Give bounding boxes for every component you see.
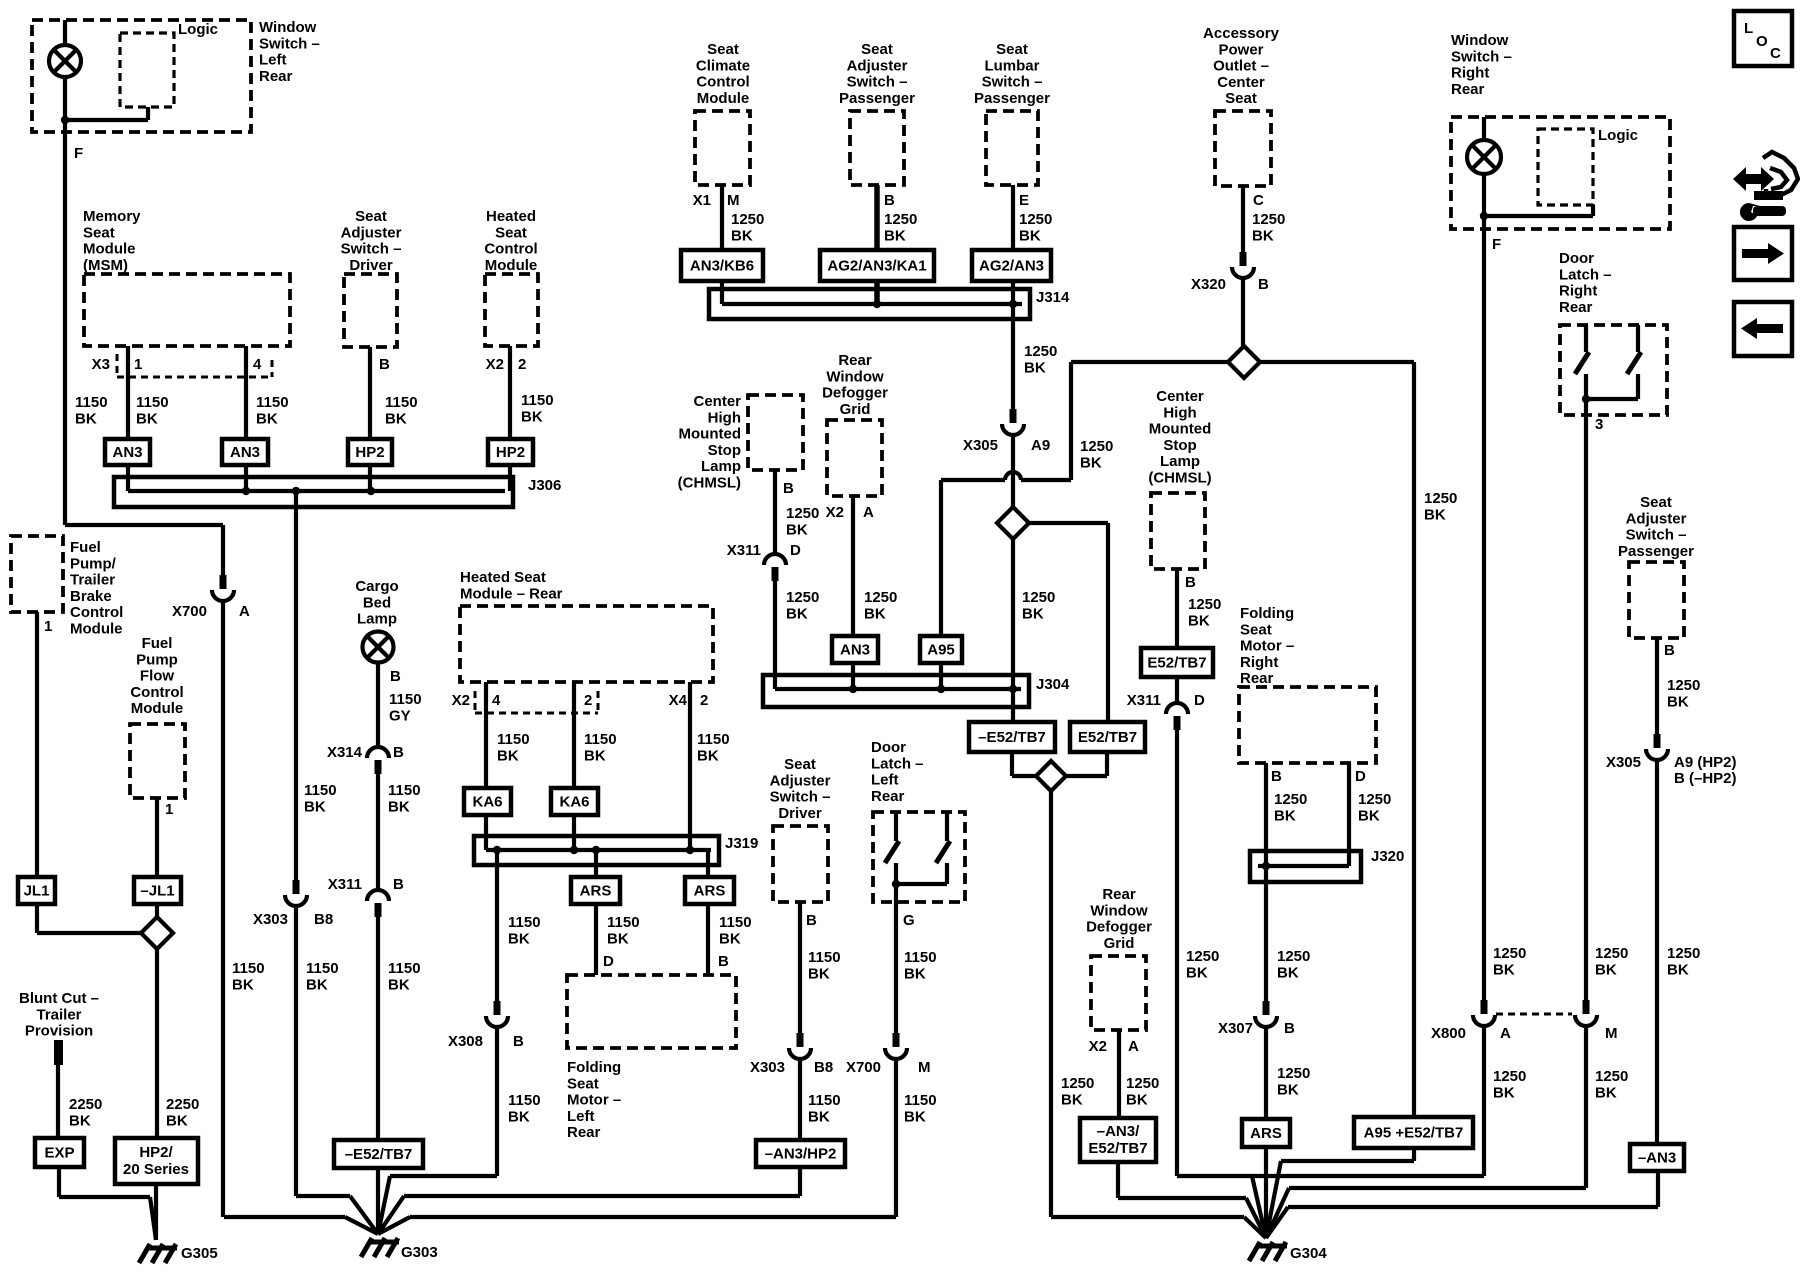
module box: Door Latch - Right Rear <box>1560 325 1667 415</box>
svg-text:BK: BK <box>256 410 278 427</box>
splice diamond (E52/TB7 join) <box>1036 761 1066 791</box>
svg-text:EXP: EXP <box>44 1145 74 1162</box>
svg-text:Motor –: Motor – <box>1240 638 1294 655</box>
svg-text:B: B <box>884 192 895 209</box>
wire: lamp feed inside window switch left rear <box>63 20 67 132</box>
svg-text:A: A <box>239 603 250 620</box>
connector X314 cavity B <box>367 747 389 774</box>
wire: horizontal to G303 <box>404 1194 800 1198</box>
svg-text:C: C <box>1253 192 1264 209</box>
svg-text:–E52/TB7: –E52/TB7 <box>978 729 1046 746</box>
wire: slant into G303 <box>378 1217 410 1234</box>
svg-text:1150: 1150 <box>904 1092 937 1109</box>
wire: 1150 BK from pin F <box>63 132 67 525</box>
svg-text:–AN3/: –AN3/ <box>1097 1123 1140 1140</box>
wire: 1150 BK X314 to X311 <box>376 774 380 890</box>
svg-text:B: B <box>513 1033 524 1050</box>
connector comb X2 of heated seat module rear <box>474 691 477 713</box>
junction on J314 (output) <box>1009 300 1017 308</box>
splice diamond (fuel pump grounds) <box>141 917 173 949</box>
ground G303 <box>361 1238 399 1257</box>
svg-text:BK: BK <box>1595 1084 1617 1101</box>
wire: CHMSL B 1250 BK <box>773 470 777 554</box>
svg-text:Window: Window <box>826 368 884 385</box>
svg-text:B: B <box>806 912 817 929</box>
wire: X303-B8 to G303 <box>294 906 298 1196</box>
svg-text:Seat: Seat <box>355 208 387 225</box>
connector X303 cavity B8 (left) <box>285 880 307 906</box>
splice code box A95 <box>920 636 962 663</box>
module box: Heated Seat Control Module <box>485 274 538 346</box>
wire: diamond to E52/TB7 <box>1030 521 1108 525</box>
svg-text:1250: 1250 <box>1252 211 1285 228</box>
wire: slant into G304 <box>1252 1176 1266 1238</box>
wire: latch switch 1 fixed (right) <box>1584 325 1588 352</box>
svg-text:J319: J319 <box>725 835 758 852</box>
svg-text:X800: X800 <box>1431 1025 1466 1042</box>
svg-text:BK: BK <box>388 798 410 815</box>
svg-text:2: 2 <box>584 692 592 709</box>
svg-text:M: M <box>918 1059 931 1076</box>
svg-text:BK: BK <box>1595 961 1617 978</box>
wire: slant into G304 <box>1266 1188 1289 1238</box>
splice diamond (center seat grounds) <box>997 507 1029 539</box>
svg-text:BK: BK <box>69 1112 91 1129</box>
svg-text:G305: G305 <box>181 1245 218 1262</box>
wire: E52/TB7 down <box>1105 752 1109 776</box>
svg-text:1: 1 <box>44 618 52 635</box>
wire: J320 output 1250 BK <box>1264 866 1268 1001</box>
svg-text:BK: BK <box>719 930 741 947</box>
svg-text:Brake: Brake <box>70 588 112 605</box>
svg-text:BK: BK <box>508 1108 530 1125</box>
splice pack J314 <box>709 289 1030 319</box>
junction on J319 <box>686 846 694 854</box>
svg-text:BK: BK <box>884 227 906 244</box>
wire: -AN3 down <box>1656 1171 1660 1207</box>
wire: bottom horizontal right part to G303 <box>410 1215 896 1219</box>
svg-text:M: M <box>727 192 740 209</box>
wire: 1150 BK X311-B to -E52/TB7 <box>376 917 380 1140</box>
junction on J304 <box>937 685 945 693</box>
splice code box AG2/AN3/KA1 <box>820 250 934 281</box>
junction on J304 <box>849 685 857 693</box>
svg-text:Mounted: Mounted <box>679 426 741 443</box>
svg-text:Rear: Rear <box>259 68 293 85</box>
svg-text:Pump/: Pump/ <box>70 555 117 572</box>
junction on J314 <box>873 300 881 308</box>
lamp: window switch illumination (right rear) <box>1467 140 1501 174</box>
svg-text:KA6: KA6 <box>559 794 589 811</box>
module box: Rear Window Defogger Grid (lower) <box>1091 956 1146 1030</box>
wire: A95 branch horizontal cont. <box>941 478 1005 482</box>
svg-text:1250: 1250 <box>884 211 917 228</box>
svg-text:BK: BK <box>1126 1091 1148 1108</box>
wire: adjuster passenger B 1250 BK <box>874 185 880 250</box>
svg-text:A9 (HP2): A9 (HP2) <box>1674 754 1737 771</box>
wire: 2250 BK to HP2/20 Series <box>155 949 159 1138</box>
wire: lamp feed inside window switch right rear <box>1482 117 1486 229</box>
wire: logic block stub <box>146 107 150 120</box>
svg-text:1150: 1150 <box>697 731 730 748</box>
wire: down to X700-A <box>221 525 225 575</box>
svg-text:BK: BK <box>508 930 530 947</box>
wire: seat adjuster driver pin B 1150 BK <box>368 347 372 439</box>
wire: KA6 to J319 <box>484 815 488 850</box>
svg-text:BK: BK <box>1424 506 1446 523</box>
svg-text:X307: X307 <box>1218 1020 1253 1037</box>
svg-text:Control: Control <box>696 74 749 91</box>
svg-text:1150: 1150 <box>508 914 541 931</box>
svg-text:4: 4 <box>492 692 501 709</box>
wire: ARS to G304 <box>1264 1147 1268 1238</box>
svg-text:J306: J306 <box>528 477 561 494</box>
svg-text:1150: 1150 <box>136 394 169 411</box>
wire: HSM X2-2 1150 BK <box>572 682 576 788</box>
wire: X700-M to G303 <box>894 1059 898 1217</box>
svg-text:1250: 1250 <box>1358 791 1391 808</box>
svg-text:1: 1 <box>165 801 173 818</box>
svg-text:BK: BK <box>808 1108 830 1125</box>
svg-text:Right: Right <box>1559 283 1597 300</box>
blunt cut terminal symbol <box>54 1040 63 1065</box>
svg-text:B8: B8 <box>314 911 333 928</box>
junction on J306 <box>367 487 375 495</box>
splice code box ARS (motor B) <box>685 877 734 904</box>
svg-text:1250: 1250 <box>1493 1068 1526 1085</box>
connector X800 cavity A <box>1473 1000 1495 1026</box>
connector X311 cavity D (right) <box>1166 703 1188 730</box>
svg-text:Lamp: Lamp <box>701 458 741 475</box>
svg-text:ARS: ARS <box>694 883 726 900</box>
svg-text:Accessory: Accessory <box>1203 25 1280 42</box>
svg-text:Adjuster: Adjuster <box>341 224 402 241</box>
svg-text:BK: BK <box>786 605 808 622</box>
svg-text:A9: A9 <box>1031 437 1050 454</box>
svg-text:BK: BK <box>304 798 326 815</box>
svg-text:Module: Module <box>70 621 123 638</box>
svg-text:1150: 1150 <box>388 782 421 799</box>
svg-text:Power: Power <box>1218 41 1263 58</box>
module box: Window Switch - Left Rear <box>32 20 251 132</box>
svg-text:JL1: JL1 <box>24 883 50 900</box>
wire: SCCM X1-M 1250 BK <box>720 185 724 250</box>
code box -AN3 <box>1630 1144 1684 1171</box>
svg-text:1250: 1250 <box>1186 948 1219 965</box>
wire: X305-A9 down to splice diamond <box>1011 435 1015 507</box>
svg-text:Seat: Seat <box>1640 494 1672 511</box>
svg-text:BK: BK <box>607 930 629 947</box>
svg-text:G303: G303 <box>401 1244 438 1261</box>
svg-text:(CHMSL): (CHMSL) <box>1148 470 1211 487</box>
svg-text:1250: 1250 <box>786 589 819 606</box>
svg-text:E52/TB7: E52/TB7 <box>1088 1140 1147 1157</box>
svg-text:–JL1: –JL1 <box>140 883 174 900</box>
svg-text:J320: J320 <box>1371 848 1404 865</box>
svg-text:1150: 1150 <box>256 394 289 411</box>
junction on J304 (output) <box>1009 685 1017 693</box>
junction on J319 <box>570 846 578 854</box>
svg-text:Door: Door <box>871 739 906 756</box>
svg-text:Rear: Rear <box>838 352 872 369</box>
wire hop over X305 leg <box>1005 472 1021 480</box>
wire: latch internal link <box>896 882 947 886</box>
wire: slant into G305 <box>150 1197 156 1240</box>
wire: ARS to folding seat motor left B <box>706 904 710 975</box>
code box -AN3/E52/TB7 <box>1080 1118 1156 1162</box>
svg-text:BK: BK <box>697 747 719 764</box>
wire: J306 leg horizontal to G303 <box>296 1194 350 1198</box>
module box: Seat Adjuster Switch - Passenger <box>850 111 904 185</box>
svg-text:Rear: Rear <box>871 788 905 805</box>
svg-text:ARS: ARS <box>580 883 612 900</box>
wire: X308-B to G303 <box>495 1027 499 1176</box>
connector X308 cavity B <box>486 1001 508 1027</box>
svg-text:1150: 1150 <box>508 1092 541 1109</box>
svg-text:Adjuster: Adjuster <box>847 57 908 74</box>
switch blade 1 (door latch left rear) <box>885 841 899 863</box>
svg-text:E52/TB7: E52/TB7 <box>1078 729 1137 746</box>
svg-text:1250: 1250 <box>1080 438 1113 455</box>
switch blade 1 (door latch right rear) <box>1575 352 1589 374</box>
svg-text:HP2/: HP2/ <box>139 1144 173 1161</box>
splice code box KA6 (X2-2) <box>551 788 598 815</box>
svg-text:Center: Center <box>1156 388 1204 405</box>
svg-text:1150: 1150 <box>904 949 937 966</box>
wire: motor B 1250 BK to J320 <box>1264 763 1268 866</box>
svg-text:Driver: Driver <box>778 805 822 822</box>
splice pack J304 <box>763 675 1029 707</box>
wire: X800-A to G304 <box>1482 1026 1486 1176</box>
splice code box AN3 (MSM pin4) <box>222 439 268 465</box>
svg-text:1150: 1150 <box>808 1092 841 1109</box>
svg-text:1250: 1250 <box>1424 490 1457 507</box>
svg-text:Door: Door <box>1559 250 1594 267</box>
svg-text:Climate: Climate <box>696 57 750 74</box>
svg-text:Window: Window <box>259 19 317 36</box>
svg-text:B: B <box>1185 574 1196 591</box>
wire: 1250 BK to G304 <box>1049 791 1053 1217</box>
svg-text:Lamp: Lamp <box>1160 453 1200 470</box>
svg-text:X303: X303 <box>253 911 288 928</box>
code box A95 +E52/TB7 <box>1354 1117 1473 1148</box>
svg-text:Fuel: Fuel <box>142 635 173 652</box>
svg-text:Seat: Seat <box>567 1075 599 1092</box>
svg-text:X308: X308 <box>448 1033 483 1050</box>
svg-text:BK: BK <box>1188 612 1210 629</box>
svg-text:–E52/TB7: –E52/TB7 <box>345 1146 413 1163</box>
svg-text:Switch –: Switch – <box>847 74 908 91</box>
wire: down to A95 code box <box>939 480 943 636</box>
svg-text:Module: Module <box>131 700 184 717</box>
svg-text:Trailer: Trailer <box>36 1006 81 1023</box>
svg-text:B: B <box>393 876 404 893</box>
svg-text:BK: BK <box>1061 1091 1083 1108</box>
svg-text:BK: BK <box>731 227 753 244</box>
wire: CHMSL right B 1250 BK <box>1175 569 1179 648</box>
svg-text:Rear: Rear <box>1559 299 1593 316</box>
svg-text:BK: BK <box>385 410 407 427</box>
svg-text:2250: 2250 <box>166 1096 199 1113</box>
svg-text:E52/TB7: E52/TB7 <box>1147 655 1206 672</box>
svg-text:1150: 1150 <box>388 960 421 977</box>
svg-text:1250: 1250 <box>786 505 819 522</box>
svg-text:High: High <box>708 409 741 426</box>
svg-text:Switch –: Switch – <box>982 74 1043 91</box>
svg-text:Rear: Rear <box>1102 886 1136 903</box>
svg-text:X4: X4 <box>669 692 688 709</box>
junction on J320 <box>1262 862 1270 870</box>
wire: horizontal to G304 <box>1289 1186 1586 1190</box>
svg-text:2: 2 <box>518 356 526 373</box>
wire: horizontal run to X700 <box>65 523 223 527</box>
svg-text:1250: 1250 <box>1595 945 1628 962</box>
wire: horizontal to G304 <box>1118 1196 1246 1200</box>
wire: slant into G304 <box>1266 1207 1288 1238</box>
module box: Door Latch - Left Rear <box>873 812 965 902</box>
wire: MSM X3-4 1150 BK <box>244 346 248 439</box>
code box -AN3/HP2 <box>756 1140 845 1167</box>
wire: JL1 to splice diamond <box>37 931 141 935</box>
svg-text:X3: X3 <box>92 356 110 373</box>
connector X320 cavity B <box>1232 252 1254 278</box>
svg-text:20 Series: 20 Series <box>123 1161 189 1178</box>
splice pack J306 <box>114 477 513 507</box>
svg-text:Module – Rear: Module – Rear <box>460 585 563 602</box>
svg-text:Logic: Logic <box>178 21 218 38</box>
svg-text:Latch –: Latch – <box>1559 266 1612 283</box>
svg-text:BK: BK <box>1024 359 1046 376</box>
svg-text:BK: BK <box>1277 1081 1299 1098</box>
svg-text:Pump: Pump <box>136 651 178 668</box>
svg-text:Trailer: Trailer <box>70 572 115 589</box>
svg-text:Control: Control <box>70 604 123 621</box>
svg-text:G: G <box>903 912 915 929</box>
svg-text:D: D <box>603 953 614 970</box>
code box EXP <box>35 1138 84 1167</box>
module box: Folding Seat Motor - Right Rear <box>1239 687 1376 763</box>
svg-text:BK: BK <box>584 747 606 764</box>
svg-text:1250: 1250 <box>864 589 897 606</box>
connector X800 cavity M <box>1575 1000 1597 1026</box>
svg-text:Grid: Grid <box>840 401 871 418</box>
svg-text:Seat: Seat <box>1225 90 1257 107</box>
lamp: window switch illumination (left rear) <box>49 45 81 77</box>
splice pack J319 <box>474 836 719 865</box>
connector comb X3 of MSM <box>116 354 119 377</box>
switch blade 2 (door latch left rear) <box>936 841 950 863</box>
wire: slant into G303 <box>378 1176 390 1234</box>
wire: A95 branch horizontal <box>1021 478 1071 482</box>
logic block (left rear window switch) <box>120 33 174 107</box>
svg-text:Provision: Provision <box>25 1023 93 1040</box>
wire: latch switch 2 fixed <box>945 812 949 841</box>
svg-text:Passenger: Passenger <box>839 90 915 107</box>
svg-text:X2: X2 <box>452 692 470 709</box>
svg-text:Rear: Rear <box>567 1124 601 1141</box>
wire: AN3 to J306 <box>244 465 248 491</box>
junction inside door latch right <box>1582 395 1590 403</box>
svg-text:B: B <box>718 953 729 970</box>
connector X311 cavity D (left) <box>764 554 786 581</box>
svg-text:BK: BK <box>1667 961 1689 978</box>
splice code box AN3 (MSM pin1) <box>105 439 150 465</box>
svg-text:X700: X700 <box>172 603 207 620</box>
svg-text:1150: 1150 <box>304 782 337 799</box>
code box HP2/20 Series <box>115 1138 198 1184</box>
svg-text:BK: BK <box>1019 227 1041 244</box>
svg-text:Passenger: Passenger <box>974 90 1050 107</box>
svg-text:HP2: HP2 <box>355 444 384 461</box>
svg-text:1250: 1250 <box>1274 791 1307 808</box>
svg-text:BK: BK <box>1186 964 1208 981</box>
module box: Seat Climate Control Module <box>695 111 750 185</box>
svg-text:2: 2 <box>700 692 708 709</box>
svg-text:X303: X303 <box>750 1059 785 1076</box>
svg-text:1150: 1150 <box>584 731 617 748</box>
wire: 1250 BK down to A95+E52/TB7 <box>1412 362 1416 1117</box>
svg-text:Seat: Seat <box>83 224 115 241</box>
svg-text:BK: BK <box>1022 605 1044 622</box>
svg-text:Right: Right <box>1451 65 1489 82</box>
svg-text:Window: Window <box>1451 32 1509 49</box>
wire: latch switch 2 lower (right) <box>1636 374 1640 399</box>
svg-text:F: F <box>74 145 83 162</box>
svg-text:B: B <box>393 744 404 761</box>
svg-text:1150: 1150 <box>385 394 418 411</box>
wire: HP2 to J306 <box>368 465 372 491</box>
wire: 1250 BK diamond through J304 to -E52/TB7 <box>1011 539 1015 722</box>
wire: motor D 1250 BK to J320 <box>1347 763 1351 866</box>
wire: AG2/AN3 to J314 <box>1011 281 1015 304</box>
svg-text:Center: Center <box>693 393 741 410</box>
svg-text:Fuel: Fuel <box>70 539 101 556</box>
svg-text:X2: X2 <box>1089 1038 1107 1055</box>
wire: slant into G303 <box>350 1196 378 1234</box>
svg-text:(CHMSL): (CHMSL) <box>678 475 741 492</box>
svg-text:X305: X305 <box>963 437 998 454</box>
svg-text:Latch –: Latch – <box>871 755 924 772</box>
svg-text:X1: X1 <box>693 192 711 209</box>
junction on J319 (to ARS) <box>592 846 600 854</box>
splice code box HP2 (adjuster driver) <box>348 439 392 465</box>
svg-text:Lumbar: Lumbar <box>984 57 1039 74</box>
svg-text:Bed: Bed <box>363 594 391 611</box>
splice code box ARS (right) <box>1242 1119 1290 1147</box>
junction: lamp to logic <box>61 116 69 124</box>
wire: 1250 BK pin F to X800-A <box>1482 229 1486 1000</box>
svg-text:B: B <box>390 668 401 685</box>
wire: defogger lower X2-A 1250 BK <box>1117 1030 1121 1118</box>
svg-text:2250: 2250 <box>69 1096 102 1113</box>
wire: into splice diamond <box>1065 774 1107 778</box>
svg-text:Stop: Stop <box>708 442 741 459</box>
module box: Folding Seat Motor - Left Rear <box>567 975 736 1048</box>
svg-text:4: 4 <box>253 356 262 373</box>
wire: EXP down <box>57 1167 61 1197</box>
fuse code box -JL1 <box>134 877 181 904</box>
svg-text:1250: 1250 <box>1126 1075 1159 1092</box>
svg-text:J304: J304 <box>1036 676 1070 693</box>
svg-text:1250: 1250 <box>1667 677 1700 694</box>
svg-text:M: M <box>1605 1025 1618 1042</box>
wire: X303-B8 to -AN3/HP2 <box>798 1059 802 1140</box>
svg-text:1: 1 <box>134 356 142 373</box>
module box: Seat Lumbar Switch - Passenger <box>986 111 1038 185</box>
wire: AN3/KB6 to J314 <box>720 281 724 304</box>
wire: J319 output 1150 BK to X308 <box>495 850 499 1001</box>
wire: KA6 to J319 <box>572 815 576 850</box>
